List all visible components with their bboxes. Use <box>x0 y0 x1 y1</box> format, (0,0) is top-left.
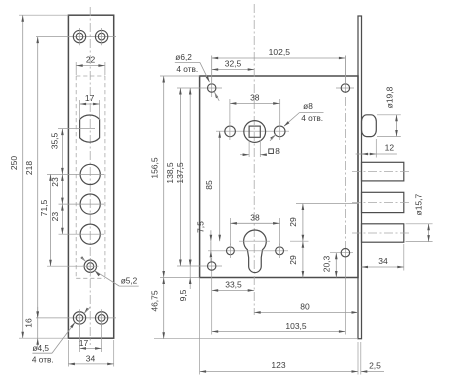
extension lines top/bottom plate edges <box>19 14 68 16</box>
mounting hole o6.2 top-left <box>208 84 216 92</box>
svg-text:2,5: 2,5 <box>369 361 381 371</box>
screw hole o4.5 bottom-left <box>73 312 85 324</box>
deadbolt 1 centerline <box>352 171 409 173</box>
left dimension column: 156.5 <box>160 75 200 77</box>
dimension 29 lower <box>302 241 304 277</box>
lock case hidden contour (dashed) <box>75 76 77 278</box>
svg-text:4 отв.: 4 отв. <box>301 113 323 123</box>
dimension 23 lower <box>61 204 63 234</box>
faceplate front view outline <box>68 15 113 338</box>
deadbolt 2 centerline <box>352 202 409 204</box>
euro cylinder keyhole profile <box>244 230 267 273</box>
bottom screw row centerline <box>36 317 116 319</box>
bottom reference line at faceplate bottom <box>154 338 358 340</box>
deadbolt 1 <box>362 162 404 181</box>
dimension 16 <box>37 318 39 338</box>
mounting hole o6.2 bottom-left <box>208 262 216 270</box>
extension lines to left dimension column <box>58 128 95 130</box>
svg-text:138,5: 138,5 <box>165 162 175 184</box>
mounting hole o6.2 top-right <box>341 84 349 92</box>
dimension 17 bottom screw spacing <box>79 322 81 352</box>
svg-text:ø5,2: ø5,2 <box>121 276 138 286</box>
dimension o15.7 deadbolt <box>406 223 433 225</box>
dimension 29 upper <box>296 203 359 205</box>
screw hole o4.5 top-left <box>73 30 85 42</box>
svg-text:ø15,7: ø15,7 <box>413 193 423 215</box>
ext/centerline top-right hole <box>336 87 354 89</box>
svg-text:71,5: 71,5 <box>39 199 49 216</box>
dimension 34 deadbolt length <box>403 244 405 271</box>
dimension 85 spindle to cylinder <box>219 131 221 241</box>
ext/centerline bottom-left hole <box>177 265 222 267</box>
spindle hub row centerline <box>216 130 289 132</box>
lock body outline <box>200 76 358 278</box>
svg-text:33,5: 33,5 <box>225 280 242 290</box>
svg-text:ø6,2: ø6,2 <box>175 52 192 62</box>
latch bolt side view <box>362 115 377 137</box>
handle hole o8 right <box>274 126 285 137</box>
svg-text:29: 29 <box>288 217 298 227</box>
svg-text:123: 123 <box>271 360 285 370</box>
svg-text:34: 34 <box>86 353 96 363</box>
plate vertical centerline <box>89 7 91 345</box>
svg-text:102,5: 102,5 <box>269 47 291 57</box>
svg-text:103,5: 103,5 <box>285 321 307 331</box>
dimension 137.5 <box>189 88 191 266</box>
bolt hole 1 in plate <box>80 164 100 184</box>
svg-text:218: 218 <box>24 161 34 175</box>
dimension 123 <box>199 279 201 375</box>
forend faceplate side view <box>358 16 362 339</box>
svg-text:23: 23 <box>50 212 60 222</box>
svg-text:85: 85 <box>204 180 214 190</box>
cylinder fixing hole right <box>276 247 284 255</box>
dimension 34 plate width <box>67 340 69 367</box>
svg-text:29: 29 <box>288 255 298 265</box>
svg-text:7,5: 7,5 <box>196 221 206 233</box>
svg-text:16: 16 <box>24 318 34 328</box>
dimension 218 screw spacing <box>37 37 39 318</box>
ext/centerline top-left hole <box>177 87 222 89</box>
screw hole o4.5 top-right <box>95 30 107 42</box>
dimension 22 case width <box>75 62 77 75</box>
dimension 32.5 <box>212 69 255 71</box>
svg-text:ø4,5: ø4,5 <box>32 343 49 353</box>
dimension 38 cylinder fixing holes <box>229 218 231 245</box>
svg-text:34: 34 <box>378 256 388 266</box>
dimension 35.5 <box>61 129 63 175</box>
mounting hole o6.2 bottom-right <box>341 249 349 257</box>
svg-text:9,5: 9,5 <box>178 289 188 301</box>
svg-text:ø8: ø8 <box>303 101 313 111</box>
deadbolt 3 centerline <box>352 232 409 234</box>
svg-text:4 отв.: 4 отв. <box>32 354 54 364</box>
right holes vertical centerline <box>344 56 346 84</box>
dimension 102.5 top hole spacing <box>211 56 213 85</box>
dimension 103.5 <box>212 331 346 333</box>
top screw row centerline <box>36 36 116 38</box>
svg-text:ø19,8: ø19,8 <box>384 86 394 108</box>
bolt hole 2 in plate <box>80 194 100 214</box>
cylinder fixing holes row centerline <box>208 250 288 252</box>
svg-text:4 отв.: 4 отв. <box>176 64 198 74</box>
screw hole o4.5 bottom-right <box>95 312 107 324</box>
bolt hole 3 in plate <box>80 224 100 244</box>
svg-text:23: 23 <box>50 177 60 187</box>
svg-text:35,5: 35,5 <box>49 132 59 149</box>
ext/centerline bottom-right hole <box>330 252 353 254</box>
dimension square 8 <box>248 140 250 157</box>
dimension 33.5 <box>212 289 255 291</box>
dimension 9.5 <box>189 266 191 278</box>
handle hole o8 left <box>225 126 236 137</box>
cylinder fixing hole left <box>227 247 235 255</box>
svg-text:8: 8 <box>275 146 280 156</box>
dimension 38 handle holes <box>229 99 231 123</box>
spindle hub circle <box>244 121 266 143</box>
dimension 2.5 faceplate thickness <box>361 371 384 373</box>
svg-text:22: 22 <box>86 55 96 65</box>
hole o5.2 in plate <box>84 260 96 272</box>
svg-text:156,5: 156,5 <box>149 157 159 179</box>
svg-text:38: 38 <box>250 92 260 102</box>
main vertical centerline through cylinder <box>253 4 255 315</box>
dimension 7.5 <box>210 241 212 251</box>
svg-text:12: 12 <box>385 143 395 153</box>
svg-text:46,75: 46,75 <box>149 290 159 312</box>
dimension 138.5 <box>179 88 181 266</box>
svg-text:20,3: 20,3 <box>321 255 331 272</box>
dimension 46.75 <box>163 278 165 339</box>
svg-text:137,5: 137,5 <box>175 162 185 184</box>
svg-text:17: 17 <box>79 338 89 348</box>
dimension 250 overall plate height <box>22 15 24 338</box>
cylinder opening in plate (circle with flats, 17 wide) <box>80 115 100 142</box>
deadbolt 3 <box>362 224 404 242</box>
keyhole horizontal centerline <box>239 240 270 242</box>
svg-text:38: 38 <box>250 212 260 222</box>
spindle square 8x8 <box>249 126 260 137</box>
dimension 17 opening width <box>79 100 81 120</box>
svg-text:80: 80 <box>300 301 310 311</box>
dimension 20.3 <box>335 253 337 278</box>
deadbolt 2 <box>362 192 404 212</box>
svg-text:250: 250 <box>9 156 19 170</box>
dimension 23 upper <box>61 174 63 204</box>
svg-text:32,5: 32,5 <box>225 59 242 69</box>
dimension 80 <box>254 311 358 313</box>
dimension 71.5 <box>50 174 52 266</box>
dimension 12 latch protrusion <box>375 139 377 158</box>
svg-text:17: 17 <box>85 93 95 103</box>
dimension o19.8 latch <box>377 114 401 116</box>
